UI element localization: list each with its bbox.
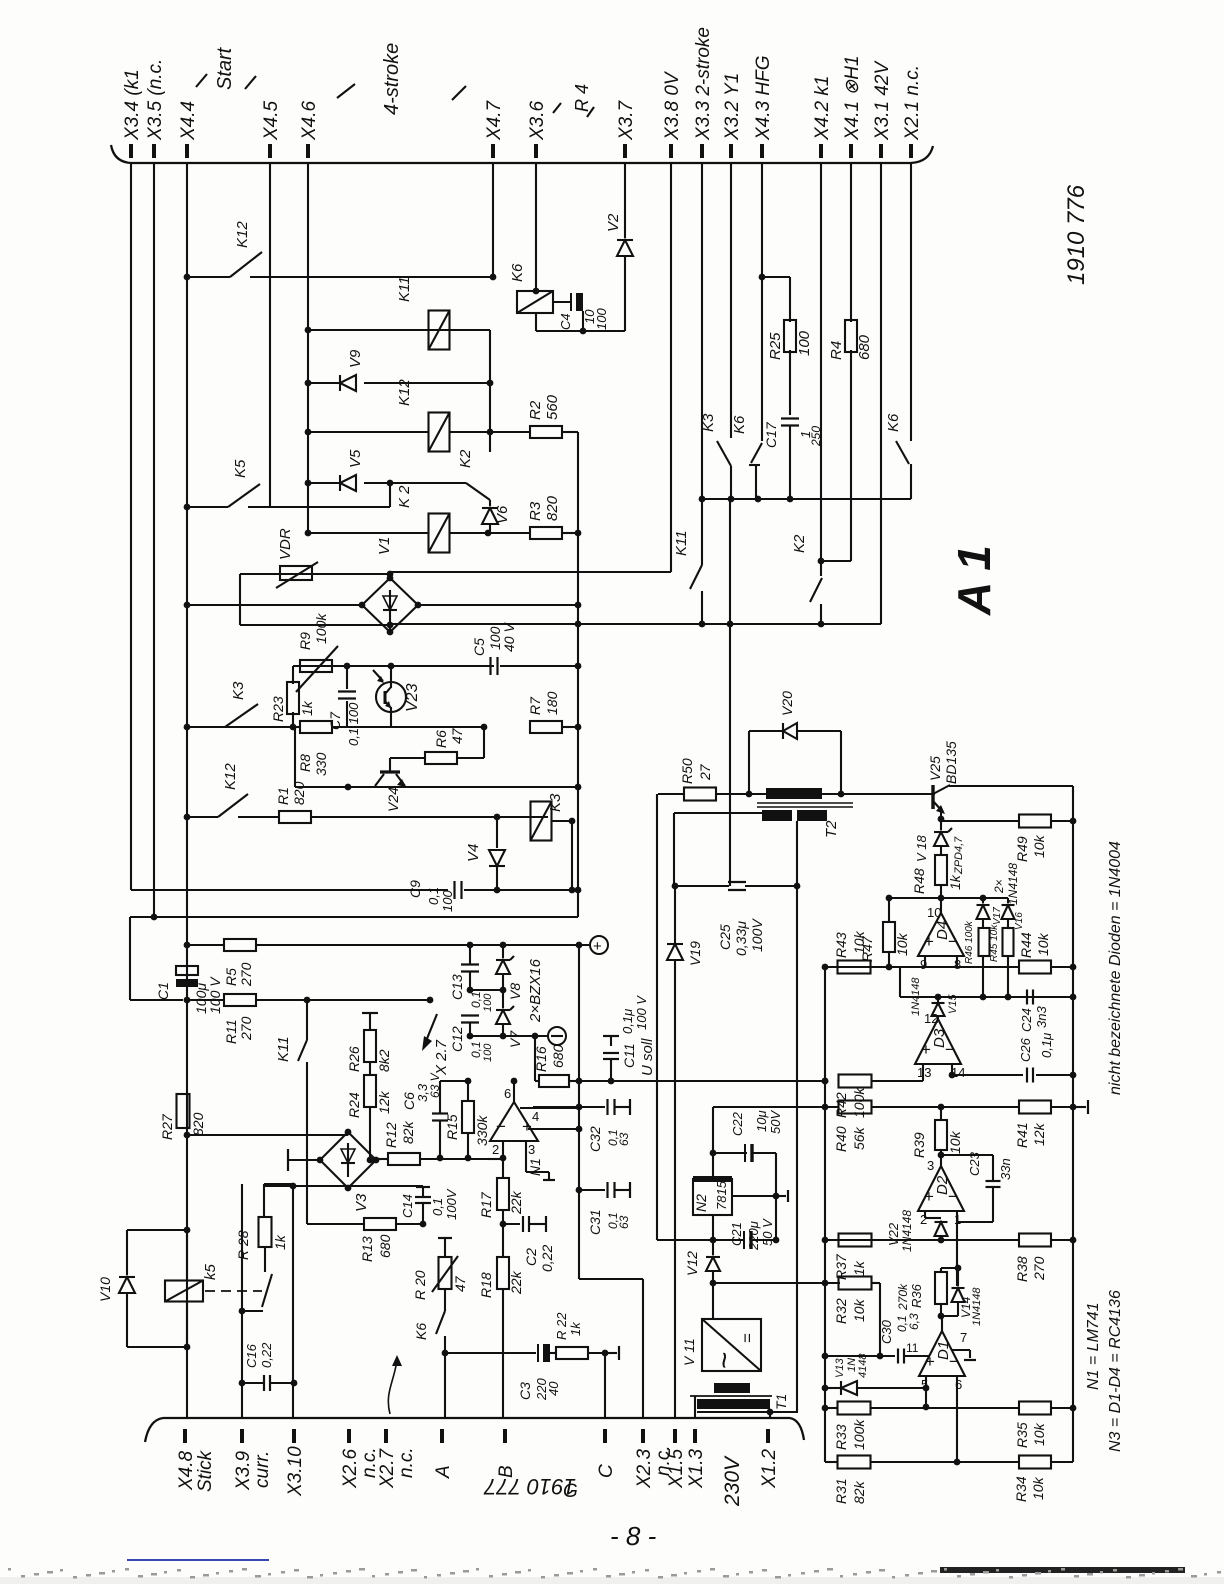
wire line y917 (from X3.5) xyxy=(130,916,578,918)
wire rail x579 xyxy=(578,945,580,1279)
svg-text:X3.8 0V: X3.8 0V xyxy=(662,70,683,141)
resistor R4 680 xyxy=(845,320,857,352)
capacitor C24 3n3 xyxy=(1026,990,1028,1005)
svg-text:100: 100 xyxy=(594,308,609,330)
resistor R11 270 xyxy=(224,994,256,1006)
resistor R24 12k xyxy=(364,1075,376,1107)
svg-text:V3: V3 xyxy=(353,1193,370,1212)
resistor R3 820 xyxy=(488,532,531,534)
svg-text:T2: T2 xyxy=(823,820,840,838)
svg-text:12: 12 xyxy=(924,1011,938,1026)
op-amp N1 xyxy=(490,1102,538,1141)
op-amp D4 xyxy=(918,913,964,956)
svg-text:8k2: 8k2 xyxy=(376,1049,392,1072)
svg-text:X4.2 k1: X4.2 k1 xyxy=(812,76,833,141)
wire X3.3 vertical xyxy=(701,163,703,499)
svg-text:0,1: 0,1 xyxy=(426,887,441,905)
resistor R5 270 xyxy=(224,939,256,951)
wire X4.2 corner to R4 line xyxy=(820,163,822,561)
svg-text:X4.8: X4.8 xyxy=(176,1450,197,1491)
svg-text:1910 776: 1910 776 xyxy=(1063,184,1090,285)
svg-text:100V: 100V xyxy=(749,918,765,952)
svg-text:X3.9: X3.9 xyxy=(233,1450,254,1491)
svg-text:12k: 12k xyxy=(376,1090,392,1114)
svg-text:680: 680 xyxy=(856,334,873,360)
svg-text:820: 820 xyxy=(544,495,561,521)
svg-text:56k: 56k xyxy=(851,1126,867,1150)
svg-text:100V: 100V xyxy=(444,1188,459,1220)
wire D3 pin14 xyxy=(951,1064,953,1075)
svg-text:820: 820 xyxy=(291,781,307,805)
svg-text:K6: K6 xyxy=(731,415,748,434)
capacitor C1 100u 100V xyxy=(176,966,198,975)
terminal X3.10 xyxy=(292,1429,296,1443)
transformer T2 core xyxy=(757,802,853,804)
wire X3.9 vertical xyxy=(241,1184,243,1418)
svg-text:D2: D2 xyxy=(934,1175,951,1195)
op-amp D1 xyxy=(919,1331,965,1376)
svg-text:0,1: 0,1 xyxy=(469,991,483,1008)
capacitor C21 220u 50V xyxy=(712,1215,714,1240)
contact K12 (left) xyxy=(184,814,191,821)
svg-text:R12: R12 xyxy=(383,1122,399,1148)
capacitor C11 0,1u 100V xyxy=(608,1078,615,1085)
svg-text:V17: V17 xyxy=(992,907,1003,925)
terminal X3.7 xyxy=(623,144,627,158)
svg-text:270: 270 xyxy=(1031,1256,1047,1281)
wire R11 line y1000 xyxy=(187,999,224,1001)
svg-text:R3: R3 xyxy=(527,501,544,521)
svg-text:X 2.7: X 2.7 xyxy=(433,1039,450,1076)
svg-text:270: 270 xyxy=(238,962,254,987)
svg-text:230V: 230V xyxy=(721,1455,744,1507)
svg-text:X2.3: X2.3 xyxy=(634,1448,655,1489)
terminal X2.3 xyxy=(641,1429,645,1443)
svg-text:K3: K3 xyxy=(700,413,717,432)
svg-text:C9: C9 xyxy=(407,880,423,898)
right mid vertical x578 xyxy=(577,432,579,917)
wire line y886 with C25 xyxy=(674,885,729,887)
wire line y890 (from X3.4) xyxy=(131,889,448,891)
terminal X1.3 xyxy=(693,1429,697,1443)
svg-text:X3.4 (k1: X3.4 (k1 xyxy=(122,69,143,141)
svg-text:3: 3 xyxy=(927,1158,934,1173)
svg-text:330k: 330k xyxy=(474,1115,490,1146)
svg-text:V10: V10 xyxy=(97,1277,113,1302)
zener V7 xyxy=(502,990,504,1008)
svg-text:N3 = D1-D4 = RC4136: N3 = D1-D4 = RC4136 xyxy=(1107,1290,1124,1452)
svg-text:D4: D4 xyxy=(934,921,951,940)
diode V10 xyxy=(119,1276,135,1278)
capacitor C32 0,1 63 xyxy=(576,1104,583,1111)
terminal A xyxy=(440,1429,444,1443)
regulator N2 7815 xyxy=(693,1179,732,1215)
svg-text:N1: N1 xyxy=(527,1158,543,1176)
svg-text:10k: 10k xyxy=(851,930,867,954)
wire line y330 xyxy=(305,327,312,334)
svg-text:V2: V2 xyxy=(605,213,622,232)
wire X3.2 vertical xyxy=(730,163,732,438)
svg-text:R33: R33 xyxy=(833,1424,849,1450)
terminal X3.4 xyxy=(129,144,133,158)
relay coil K12 xyxy=(429,413,450,452)
terminal X3.1 xyxy=(879,144,883,158)
diode V15 1N4148 xyxy=(932,1002,945,1004)
svg-text:K11: K11 xyxy=(396,276,413,302)
svg-text:13: 13 xyxy=(917,1065,931,1080)
wire X3.8 vertical to 0V rail xyxy=(670,163,672,572)
svg-text:X4.6: X4.6 xyxy=(299,100,320,141)
svg-text:X4.4: X4.4 xyxy=(178,101,199,141)
wire X4.5 vertical xyxy=(269,163,271,507)
svg-text:Stick: Stick xyxy=(195,1449,216,1492)
capacitor C16 0,22 xyxy=(239,1380,246,1387)
svg-text:K6: K6 xyxy=(509,263,526,282)
svg-text:R 22: R 22 xyxy=(554,1312,569,1340)
svg-text:C2: C2 xyxy=(523,1248,539,1266)
svg-text:X4.3 HFG: X4.3 HFG xyxy=(753,56,774,141)
svg-text:2×BZX16: 2×BZX16 xyxy=(527,958,544,1023)
svg-text:K12: K12 xyxy=(222,763,239,790)
svg-text:1N4148: 1N4148 xyxy=(910,977,922,1016)
terminal X1.2 xyxy=(766,1429,770,1443)
svg-text:X4.1 ⊗H1: X4.1 ⊗H1 xyxy=(842,55,863,141)
wire line y1353 with C3/R22 xyxy=(445,1352,536,1354)
capacitor C12 0,1 100 xyxy=(461,1014,479,1016)
svg-text:R34: R34 xyxy=(1013,1476,1029,1502)
terminal X4.8 xyxy=(183,1429,187,1443)
terminal X1.5 xyxy=(673,1429,677,1443)
svg-text:X3.5 (n.c.: X3.5 (n.c. xyxy=(145,59,166,141)
resistor R15 330k xyxy=(465,1078,472,1085)
svg-text:K3: K3 xyxy=(230,681,247,700)
svg-text:+: + xyxy=(924,932,934,951)
svg-text:X3.3 2-stroke: X3.3 2-stroke xyxy=(693,27,714,141)
diode V22 1N4148 xyxy=(924,1211,926,1218)
svg-text:X1.3: X1.3 xyxy=(686,1448,707,1489)
wire line y787 xyxy=(295,786,578,788)
svg-text:2: 2 xyxy=(920,1212,927,1227)
contact K3 (left) xyxy=(184,724,191,731)
resistor R36 270k xyxy=(941,1267,958,1269)
svg-text:V12: V12 xyxy=(684,1251,700,1276)
wire 0V to T2 vertical x730 xyxy=(729,624,731,886)
svg-text:2×: 2× xyxy=(992,879,1006,894)
contact K11 (lower) xyxy=(306,1000,308,1040)
svg-text:63: 63 xyxy=(617,1215,631,1229)
resistor R43 10k xyxy=(838,961,871,974)
svg-text:22k: 22k xyxy=(508,1190,524,1215)
capacitor C26 0,1u xyxy=(1026,1068,1028,1083)
capacitor C4 10/100 xyxy=(553,301,571,303)
svg-text:R26: R26 xyxy=(346,1046,362,1072)
capacitor C17 1/250 xyxy=(781,417,799,419)
svg-text:10: 10 xyxy=(927,905,941,920)
svg-text:nicht bezeichnete Dioden = 1N4: nicht bezeichnete Dioden = 1N4004 xyxy=(1107,841,1124,1095)
svg-text:100: 100 xyxy=(482,993,494,1012)
svg-text:10k: 10k xyxy=(851,1298,867,1322)
svg-text:22k: 22k xyxy=(508,1270,524,1295)
relay coil K11 xyxy=(429,311,450,350)
svg-text:~: ~ xyxy=(708,1351,741,1369)
wire line y1107 xyxy=(713,1106,839,1108)
contact K6 (bottom) xyxy=(436,1311,445,1334)
wire C column down xyxy=(604,1353,606,1418)
svg-text:R43: R43 xyxy=(833,932,849,958)
resistor R40 56k xyxy=(839,1101,872,1114)
wire U soll to rail xyxy=(822,1078,829,1085)
terminal B xyxy=(503,1429,507,1443)
svg-text:=: = xyxy=(738,1333,757,1343)
svg-text:C25: C25 xyxy=(717,924,733,950)
svg-text:C30: C30 xyxy=(879,1319,894,1344)
svg-text:R 4: R 4 xyxy=(572,84,592,112)
terminal X4.4 xyxy=(185,144,189,158)
svg-text:V19: V19 xyxy=(687,941,703,966)
svg-text:40 V: 40 V xyxy=(501,622,517,652)
svg-text:X4.7: X4.7 xyxy=(484,99,505,141)
svg-text:D1: D1 xyxy=(935,1341,952,1360)
resistor R26 8k2 xyxy=(362,1012,378,1014)
svg-text:R38: R38 xyxy=(1014,1256,1030,1282)
transformer T2 primary xyxy=(766,788,822,799)
terminal X3.8 xyxy=(669,144,673,158)
svg-text:K2: K2 xyxy=(457,449,474,468)
wire pin1 down to V14 xyxy=(956,1211,958,1286)
resistor R34 10k xyxy=(1019,1456,1051,1469)
diode V18 zener xyxy=(934,831,948,833)
svg-text:+: + xyxy=(593,938,602,955)
wire bridge top stub xyxy=(389,574,391,578)
svg-text:R6: R6 xyxy=(433,730,449,748)
wire V3 bottom line y1186 xyxy=(264,1185,423,1187)
resistor R37 1k xyxy=(839,1234,872,1247)
resistor R9 100k (trimmer) xyxy=(300,660,332,672)
svg-text:C21: C21 xyxy=(729,1222,744,1246)
diode V4 xyxy=(496,817,498,848)
svg-text:4-stroke: 4-stroke xyxy=(381,43,403,115)
resistor R42 100k xyxy=(822,1078,829,1085)
contact k5 xyxy=(262,1274,272,1307)
svg-text:R41: R41 xyxy=(1014,1122,1030,1148)
wire line y997 xyxy=(900,996,1073,998)
resistor R27 820 xyxy=(177,1094,190,1128)
svg-text:6: 6 xyxy=(504,1086,511,1101)
svg-text:680: 680 xyxy=(550,1044,566,1068)
svg-text:X2.7: X2.7 xyxy=(377,1447,398,1489)
svg-text:270: 270 xyxy=(238,1016,254,1041)
svg-text:12k: 12k xyxy=(1031,1122,1047,1146)
op-amp D3 xyxy=(915,1019,961,1064)
svg-text:11: 11 xyxy=(906,1341,919,1355)
bridge rectifier V1 xyxy=(362,578,418,632)
capacitor C14 0,1 100V xyxy=(416,1186,430,1188)
svg-text:X4.5: X4.5 xyxy=(261,100,282,141)
svg-text:X3.2 Y1: X3.2 Y1 xyxy=(722,73,743,141)
svg-text:K 2: K 2 xyxy=(396,485,413,508)
svg-text:R32: R32 xyxy=(833,1298,849,1324)
branch R25/C17 xyxy=(759,274,766,281)
terminal X3.6 xyxy=(534,144,538,158)
svg-text:C16: C16 xyxy=(244,1343,259,1368)
svg-text:0,1: 0,1 xyxy=(469,1041,483,1058)
svg-text:6,3: 6,3 xyxy=(907,1313,921,1330)
svg-text:1k: 1k xyxy=(568,1321,583,1336)
wire +V line y945 xyxy=(184,942,191,949)
terminal C xyxy=(603,1429,607,1443)
svg-text:U soll: U soll xyxy=(639,1038,656,1076)
svg-text:C23: C23 xyxy=(967,1151,982,1176)
svg-text:R25: R25 xyxy=(767,332,784,360)
svg-text:R46 100k: R46 100k xyxy=(964,920,975,964)
terminal X3.9 xyxy=(240,1429,244,1443)
right rail x1073 xyxy=(1072,790,1074,1462)
diode V6 xyxy=(489,500,491,506)
wire x797 vertical down xyxy=(796,886,798,1412)
svg-text:9: 9 xyxy=(920,957,927,972)
svg-text:1k: 1k xyxy=(851,1260,867,1276)
wire N1 pin2 node xyxy=(500,1155,507,1162)
svg-text:R 20: R 20 xyxy=(412,1270,428,1300)
relay coil k5 xyxy=(165,1281,203,1302)
minus terminal circle xyxy=(470,1035,548,1037)
svg-text:63 V: 63 V xyxy=(428,1072,442,1098)
svg-text:27: 27 xyxy=(697,763,713,781)
resistor R1 820 xyxy=(279,811,311,823)
svg-text:A 1: A 1 xyxy=(948,545,1000,616)
svg-text:C12: C12 xyxy=(449,1026,465,1052)
wire X3.2 lower vertical x730 xyxy=(729,499,731,624)
svg-text:R44: R44 xyxy=(1018,932,1034,958)
wire N1 output to U soll xyxy=(513,1081,515,1102)
svg-text:R8: R8 xyxy=(297,754,313,772)
svg-text:100 V: 100 V xyxy=(634,995,649,1030)
wire bridge left to X4.4 xyxy=(187,604,362,606)
svg-text:N2: N2 xyxy=(693,1194,709,1212)
wire X3.4 vertical xyxy=(130,163,132,890)
svg-text:VDR: VDR xyxy=(277,528,294,560)
svg-text:82k: 82k xyxy=(400,1120,416,1144)
svg-text:V1: V1 xyxy=(376,537,393,555)
svg-text:−: − xyxy=(496,1117,506,1136)
svg-text:R7: R7 xyxy=(527,696,543,715)
svg-text:C: C xyxy=(596,1464,617,1478)
svg-text:820: 820 xyxy=(190,1112,206,1136)
svg-text:330: 330 xyxy=(313,752,329,776)
svg-text:R50: R50 xyxy=(679,758,695,784)
svg-text:270k: 270k xyxy=(896,1283,910,1311)
terminal X4.3 xyxy=(760,144,764,158)
svg-text:K2: K2 xyxy=(791,534,808,553)
svg-text:3n3: 3n3 xyxy=(1034,1006,1049,1028)
svg-text:R45 10k: R45 10k xyxy=(989,924,1000,962)
svg-text:+: + xyxy=(921,1040,931,1059)
N2 ground pin xyxy=(732,1195,776,1197)
svg-text:0,1μ: 0,1μ xyxy=(1039,1033,1054,1058)
svg-text:K3: K3 xyxy=(547,793,564,812)
diode V19 xyxy=(667,943,683,945)
wire line y666 xyxy=(293,665,494,667)
svg-text:K6: K6 xyxy=(413,1323,429,1340)
svg-text:V16: V16 xyxy=(1014,912,1025,930)
contact K3 xyxy=(717,441,731,466)
svg-text:1k: 1k xyxy=(272,1234,288,1250)
svg-text:R11: R11 xyxy=(223,1019,239,1044)
terminal X4.6 xyxy=(306,144,310,158)
contact K11 (in X3.3) xyxy=(701,499,703,565)
svg-text:R17: R17 xyxy=(478,1191,494,1218)
resistor R23 1k xyxy=(292,666,294,684)
capacitor C2 0,22 xyxy=(503,1223,520,1225)
svg-text:10k: 10k xyxy=(947,1130,963,1154)
plus terminal circle xyxy=(590,936,608,954)
resistor R16 680 xyxy=(534,1036,536,1081)
svg-text:V13: V13 xyxy=(834,1358,846,1378)
wire D1 pin7 ground xyxy=(951,1349,970,1351)
resistor R12 82k xyxy=(376,1158,388,1160)
arrow X2.7 reference xyxy=(424,1014,437,1046)
wire X1.5 vertical xyxy=(674,886,676,944)
svg-text:C1: C1 xyxy=(155,982,171,1000)
svg-text:N1 = LM741: N1 = LM741 xyxy=(1085,1302,1102,1390)
svg-text:V9: V9 xyxy=(347,349,364,368)
svg-text:82k: 82k xyxy=(851,1480,867,1504)
contact K6 (in X4.3) xyxy=(751,443,762,463)
wire D4 out line y898 xyxy=(889,897,1008,899)
svg-text:1N4148: 1N4148 xyxy=(900,1210,914,1252)
svg-text:R9: R9 xyxy=(297,632,313,650)
svg-text:V15: V15 xyxy=(947,994,959,1014)
tick marks between top labels xyxy=(196,74,207,87)
svg-text:220μ: 220μ xyxy=(746,1221,761,1251)
svg-text:1N4148: 1N4148 xyxy=(1006,863,1020,905)
svg-text:R16: R16 xyxy=(533,1046,549,1072)
svg-text:33n: 33n xyxy=(998,1158,1013,1180)
svg-text:R13: R13 xyxy=(359,1236,375,1262)
contact K2 (upper) xyxy=(466,483,490,500)
resistor R33 100k xyxy=(822,1405,829,1412)
svg-text:X3.7: X3.7 xyxy=(616,99,637,141)
svg-text:C14: C14 xyxy=(400,1194,415,1218)
svg-text:47: 47 xyxy=(452,1275,468,1292)
resistor R35 10k xyxy=(1019,1402,1051,1415)
diode V14 1N4148 xyxy=(957,1268,959,1286)
top terminal bus xyxy=(131,162,911,164)
svg-text:X3.6: X3.6 xyxy=(527,100,548,141)
svg-text:V7: V7 xyxy=(507,1030,523,1048)
svg-text:0,22: 0,22 xyxy=(539,1245,555,1272)
svg-text:50V: 50V xyxy=(768,1110,783,1134)
terminal X4.1 xyxy=(849,144,853,158)
svg-text:C24: C24 xyxy=(1019,1008,1034,1032)
svg-text:1k: 1k xyxy=(299,700,315,716)
svg-text:R36: R36 xyxy=(909,1283,924,1308)
svg-text:10k: 10k xyxy=(1031,834,1047,858)
svg-text:K11: K11 xyxy=(673,530,690,556)
terminal X3.2 xyxy=(729,144,733,158)
resistor R48 1k xyxy=(940,846,942,855)
wire X3.6 vertical xyxy=(535,163,537,291)
svg-text:K12: K12 xyxy=(396,379,413,406)
svg-text:1k: 1k xyxy=(947,874,963,890)
wire line y533 with relay coil K2 xyxy=(305,530,312,537)
svg-text:X3.10: X3.10 xyxy=(285,1446,306,1497)
wire line y1283 to R32 xyxy=(713,1282,840,1284)
svg-text:k5: k5 xyxy=(202,1264,219,1281)
svg-text:10k: 10k xyxy=(1031,1422,1047,1446)
resistor R8 330 xyxy=(293,726,300,728)
svg-text:R39: R39 xyxy=(911,1132,927,1158)
